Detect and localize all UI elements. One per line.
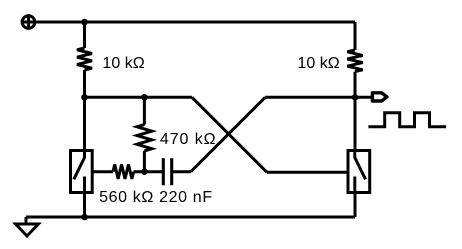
ground terminal bbox=[16, 217, 39, 236]
node junction dot (470k top) bbox=[141, 94, 148, 101]
resistor R2 10 kΩ (right) bbox=[347, 50, 362, 72]
wire right rail below resistor bbox=[354, 72, 357, 98]
wire right rail upper bbox=[354, 22, 357, 50]
resistor 470 kΩ bbox=[137, 97, 152, 171]
node junction dot (left collector node) bbox=[81, 94, 88, 101]
wire top rail bbox=[36, 21, 355, 24]
wire Q1 base stub bbox=[92, 170, 113, 173]
wire left rail upper bbox=[83, 22, 86, 48]
wire output stub bbox=[355, 96, 373, 99]
wire crossover diagonal (left collector down to right base) bbox=[192, 97, 267, 172]
wire bottom ground rail bbox=[26, 216, 355, 219]
positive supply terminal bbox=[21, 14, 37, 30]
node junction dot (470k bottom) bbox=[141, 168, 148, 175]
resistor 560 kΩ bbox=[113, 165, 134, 179]
node junction dot (right collector node) bbox=[352, 94, 359, 101]
resistor R1 10 kΩ (left) bbox=[77, 48, 92, 70]
transistor Q2 (right, switch-in-box symbol) bbox=[348, 151, 370, 193]
wire right rail to transistor bbox=[354, 97, 357, 150]
svg-text:10 kΩ: 10 kΩ bbox=[102, 55, 144, 72]
svg-text:560 kΩ 220 nF: 560 kΩ 220 nF bbox=[99, 189, 212, 206]
output terminal pin bbox=[372, 93, 387, 101]
wire left rail below resistor bbox=[83, 70, 86, 97]
node junction dot (top left tee) bbox=[81, 19, 88, 26]
transistor Q1 (left, switch-in-box symbol) bbox=[71, 151, 93, 193]
wire 560k to cap node bbox=[134, 170, 163, 173]
svg-text:470 kΩ: 470 kΩ bbox=[160, 131, 216, 148]
wire Q1 emitter to ground rail bbox=[83, 193, 86, 218]
wire top right horizontal to right rail bbox=[265, 96, 355, 99]
wire right base horizontal bbox=[267, 171, 348, 174]
wire left rail to transistor bbox=[83, 97, 86, 150]
node junction dot (ground rail) bbox=[81, 214, 88, 221]
square wave icon bbox=[368, 113, 446, 127]
wire cap to crossover bbox=[172, 170, 191, 173]
wire collector horizontal (left node to crossover) bbox=[85, 96, 192, 99]
capacitor 220 nF bbox=[163, 158, 171, 185]
wire Q2 emitter to ground rail bbox=[354, 193, 357, 218]
svg-text:10 kΩ: 10 kΩ bbox=[297, 55, 339, 72]
wire crossover diagonal (cap up to right collector rail) bbox=[191, 97, 265, 171]
